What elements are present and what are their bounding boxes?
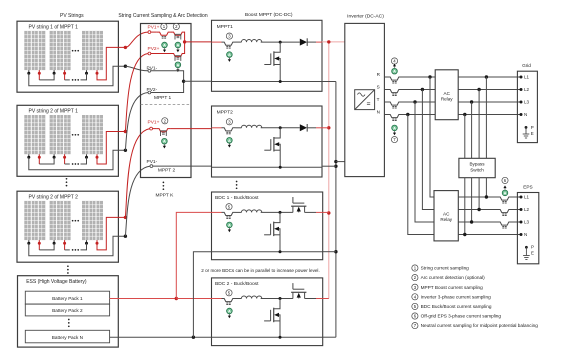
svg-text:PV Strings: PV Strings xyxy=(60,13,84,19)
string negative output wire xyxy=(29,236,126,256)
node bus MPPT2 rail xyxy=(334,165,337,168)
tap T down to EPS relay xyxy=(415,102,434,222)
node bus BDC1 rail xyxy=(334,250,337,253)
wire N inverter to AC relay xyxy=(384,114,387,116)
svg-text:Off-grid EPS 3-phase current s: Off-grid EPS 3-phase current sampling xyxy=(421,314,502,319)
bypass out L2 xyxy=(478,178,480,210)
wire switch to output (BDC 1 - Buck/Boost) xyxy=(305,211,316,213)
panel 3.2 negative terminal xyxy=(53,240,55,243)
circled 3 (MPPT1) xyxy=(226,33,232,39)
sensor core N xyxy=(392,118,394,120)
node R tap xyxy=(428,75,431,78)
wire relay to grid L1 xyxy=(458,76,521,78)
terminal PV1+ (MPPT2) xyxy=(150,127,153,130)
node: string 3 + xyxy=(124,216,127,219)
svg-text:Boost MPPT (DC-DC): Boost MPPT (DC-DC) xyxy=(245,12,293,18)
circled 1 xyxy=(161,23,167,29)
EPS sensor meter xyxy=(502,190,508,196)
node MPPT2 rail xyxy=(279,166,282,169)
PV panel 1.3 xyxy=(82,31,103,70)
wire battery - to BDC1 rail xyxy=(193,252,211,338)
sensor core EPS L3 xyxy=(502,226,504,228)
wire string1- to PV1- terminal xyxy=(125,66,148,71)
MPPT1 negative rail xyxy=(212,81,323,83)
panel 2.3 negative terminal xyxy=(86,154,88,157)
node BDC 2 - Buck/Boost rail xyxy=(279,336,282,339)
panel 2.2 positive terminal xyxy=(64,154,66,157)
node MPPT2 switch drain xyxy=(279,126,282,129)
ellipsis between PV box2 and box3 xyxy=(66,178,68,180)
grid terminal N xyxy=(520,113,523,116)
svg-text:A: A xyxy=(228,138,231,143)
EPS terminal L2 xyxy=(520,208,523,211)
grid box xyxy=(517,71,537,142)
panel 2.2 negative terminal xyxy=(53,154,55,157)
svg-text:Relay: Relay xyxy=(440,217,452,222)
sensor 1 core xyxy=(162,36,164,38)
panel 1.3 positive terminal xyxy=(96,70,98,73)
wire EPS relay to EPS N xyxy=(458,234,521,236)
BDC 2 - Buck/Boost negative rail xyxy=(212,336,323,338)
BDC 1 - Buck/Boost sensor arrow xyxy=(228,228,230,229)
tap N down to EPS relay xyxy=(408,115,434,235)
sensor 4 clamp xyxy=(161,130,167,132)
svg-text:String current sampling: String current sampling xyxy=(421,266,470,271)
series link panel2+ to panel3- (with ellipsis) xyxy=(64,73,66,80)
panel 2.3 positive terminal xyxy=(96,154,98,157)
svg-text:Inverter (DC-AC): Inverter (DC-AC) xyxy=(347,14,384,20)
series link panel1+ to panel2- xyxy=(38,243,40,250)
node EPS L2 tap xyxy=(477,208,480,211)
panel 1.1 negative terminal xyxy=(28,70,30,73)
string positive output wire xyxy=(97,217,125,250)
node MPPT1 rail xyxy=(279,80,282,83)
buck MOSFET BDC 2 - Buck/Boost xyxy=(274,299,280,309)
panel 2.1 positive terminal xyxy=(38,154,40,157)
node battery + xyxy=(175,297,178,300)
node grid N tap xyxy=(463,113,466,116)
node: string 2 + xyxy=(124,130,127,133)
wire BDC1 out to bus xyxy=(323,211,329,213)
sensor 4 arrow up xyxy=(394,66,396,67)
PV panel 2.1 xyxy=(24,115,45,154)
wire relay to grid L3 xyxy=(458,101,521,103)
sensor core R xyxy=(392,81,394,83)
panel 3.3 positive terminal xyxy=(96,240,98,243)
node BDC 1 - Buck/Boost rail xyxy=(279,250,282,253)
svg-text:E: E xyxy=(531,251,534,256)
panel 1.1 positive terminal xyxy=(38,70,40,73)
PV panel 2.3 xyxy=(82,115,103,154)
DC/AC converter symbol xyxy=(355,90,375,110)
wire PV1+ (MPPT2) xyxy=(153,128,157,130)
MPPT2 input sensor meter xyxy=(227,138,233,144)
svg-text:Inverter 3-phase current sampl: Inverter 3-phase current sampling xyxy=(421,294,491,299)
bypass out N xyxy=(464,178,466,235)
BDC 1 - Buck/Boost negative rail xyxy=(212,251,323,253)
PV string box: PV string 2 of MPPT 1 xyxy=(17,105,118,176)
terminal PV2+ xyxy=(148,52,151,55)
svg-text:PV1+: PV1+ xyxy=(148,24,160,30)
wire PV1- (MPPT2) xyxy=(153,165,212,167)
node S tap xyxy=(421,88,424,91)
legend item 5 xyxy=(412,303,418,309)
svg-text:PV1-: PV1- xyxy=(147,159,158,165)
node BDC 2 - Buck/Boost buck switch xyxy=(279,297,282,300)
string negative output wire xyxy=(29,66,126,86)
boost MOSFET BDC 1 - Buck/Boost xyxy=(292,206,294,212)
MPPT1 input line xyxy=(212,41,222,43)
circled 5 (BDC 2 - Buck/Boost) xyxy=(226,290,232,296)
EPS terminal N xyxy=(520,233,523,236)
sensor core EPS L1 xyxy=(502,201,504,203)
wire bus to BDC2 rail xyxy=(323,336,336,338)
node EPS L1 tap xyxy=(485,195,488,198)
MPPT1 sensor arrow xyxy=(228,58,230,59)
svg-text:R: R xyxy=(377,72,381,77)
node T tap xyxy=(413,100,416,103)
circled 5 (BDC 1 - Buck/Boost) xyxy=(226,204,232,210)
svg-text:L3: L3 xyxy=(524,100,530,105)
diode MPPT1 xyxy=(300,39,307,46)
svg-text:MPPT 1: MPPT 1 xyxy=(154,95,172,101)
string positive output wire xyxy=(97,47,125,80)
boost MOSFET BDC 2 - Buck/Boost xyxy=(292,292,294,298)
svg-text:BDC Buck/Boost current samplin: BDC Buck/Boost current sampling xyxy=(421,304,492,309)
inductor MPPT1 xyxy=(241,40,261,43)
node MPPT1 DC+ xyxy=(183,40,186,43)
legend item 4 xyxy=(412,294,418,300)
sensor 3 meter xyxy=(175,62,181,68)
node grid L3 tap xyxy=(470,100,473,103)
BDC 2 - Buck/Boost input sensor meter xyxy=(227,308,233,314)
MPPT2 negative rail xyxy=(212,166,323,168)
MPPT1 input sensor meter xyxy=(227,52,233,58)
sensor core T xyxy=(392,106,394,108)
node EPS L3 tap xyxy=(470,220,473,223)
wire MPPT1 rail to bus xyxy=(322,81,336,83)
svg-text:A: A xyxy=(163,43,166,48)
svg-text:Neutral current sampling for m: Neutral current sampling for midpoint po… xyxy=(421,323,539,328)
ellipsis between PV box3 and ESS xyxy=(67,265,69,267)
svg-text:A: A xyxy=(504,190,507,195)
svg-text:MPPT1: MPPT1 xyxy=(217,24,234,30)
panel 3.2 positive terminal xyxy=(64,240,66,243)
legend item 6 xyxy=(412,313,418,319)
MPPT1 input sensor core xyxy=(226,46,228,48)
inductor BDC 1 - Buck/Boost xyxy=(241,210,261,213)
svg-text:String Current Sampling & Arc: String Current Sampling & Arc Detection xyxy=(118,13,207,19)
ellipsis between MPPT2 and BDC1 xyxy=(236,181,238,183)
bypass switch box xyxy=(459,158,495,177)
svg-text:S: S xyxy=(377,85,380,90)
PV string box: PV string 2 of MPPT 2 xyxy=(17,191,118,262)
svg-text:BDC 2 - Buck/Boost: BDC 2 - Buck/Boost xyxy=(215,281,259,287)
wire PV2+ xyxy=(151,53,172,55)
svg-text:A: A xyxy=(393,69,396,74)
svg-text:Battery Pack 1: Battery Pack 1 xyxy=(52,296,83,301)
panel 2.1 negative terminal xyxy=(28,154,30,157)
sensor 1 arrow xyxy=(164,48,166,49)
EPS box xyxy=(517,193,538,264)
terminal PV1- (MPPT2) xyxy=(150,165,153,168)
BDC 2 - Buck/Boost sensor arrow xyxy=(228,314,230,315)
node: string 1 - xyxy=(124,65,127,68)
EPS terminal L3 xyxy=(520,221,523,224)
svg-text:PV string 2 of MPPT 1: PV string 2 of MPPT 1 xyxy=(29,109,79,115)
series link panel2+ to panel3- (with ellipsis) xyxy=(64,243,66,250)
wire EPS relay to EPS L1 xyxy=(458,196,497,198)
wire PV2- xyxy=(151,81,184,92)
ellipsis between panels xyxy=(72,50,74,52)
svg-text:P: P xyxy=(531,125,534,130)
svg-text:Grid: Grid xyxy=(522,63,531,68)
series link panel2+ to panel3- (with ellipsis) xyxy=(64,157,66,164)
wire battery pack N - rail xyxy=(110,336,212,338)
wire string2+ to PV2+ terminal xyxy=(125,54,148,132)
grid terminal L1 xyxy=(520,76,523,79)
node BDC 1 - Buck/Boost buck switch xyxy=(279,211,282,214)
grid terminal L2 xyxy=(520,88,523,91)
MOSFET MPPT1 xyxy=(274,42,280,52)
svg-text:A: A xyxy=(393,125,396,130)
wire switch to output (BDC 2 - Buck/Boost) xyxy=(305,298,316,300)
inductor BDC 2 - Buck/Boost xyxy=(241,296,261,299)
svg-text:A: A xyxy=(228,222,231,227)
PV panel 1.2 xyxy=(50,31,71,70)
svg-text:N: N xyxy=(524,112,527,117)
wire string3- to MPPT2 PV1- terminal xyxy=(125,166,150,236)
svg-text:MPPT 2: MPPT 2 xyxy=(158,168,176,174)
tap S down to EPS relay xyxy=(422,90,434,210)
wire inductor to diode (MPPT2) xyxy=(261,127,300,129)
sensor 2 clamp xyxy=(175,33,181,35)
svg-text:L3: L3 xyxy=(524,220,530,225)
panel 3.3 negative terminal xyxy=(86,240,88,243)
diode MPPT2 xyxy=(300,124,307,131)
sensor core EPS L2 xyxy=(502,213,504,215)
BDC 1 - Buck/Boost box xyxy=(212,192,323,260)
svg-text:T: T xyxy=(377,97,380,102)
grid terminal L3 xyxy=(520,101,523,104)
svg-text:2 or more BDCs can be in paral: 2 or more BDCs can be in parallel to inc… xyxy=(201,268,319,273)
tap R down to EPS relay xyxy=(430,77,434,197)
wire EPS relay to EPS L2 xyxy=(458,209,497,211)
svg-text:ESS (High Voltage Battery): ESS (High Voltage Battery) xyxy=(26,279,87,285)
buck MOSFET BDC 1 - Buck/Boost xyxy=(274,212,280,222)
grid bypass feed L3 xyxy=(471,102,473,158)
wire relay to grid N xyxy=(458,114,521,116)
svg-text:N: N xyxy=(377,110,380,115)
svg-text:Switch: Switch xyxy=(470,168,484,173)
MPPT2 input sensor core xyxy=(226,131,228,133)
svg-text:PV1+: PV1+ xyxy=(148,120,160,126)
svg-text:MPPT K: MPPT K xyxy=(156,193,175,199)
svg-text:A: A xyxy=(176,43,179,48)
MPPT1 box xyxy=(212,20,323,91)
MPPT2 input line xyxy=(212,127,222,129)
wire diode to output (MPPT2) xyxy=(307,127,316,129)
sensor 1 meter xyxy=(162,42,168,48)
svg-text:L1: L1 xyxy=(524,195,530,200)
MOSFET MPPT2 xyxy=(274,128,280,138)
svg-text:N: N xyxy=(524,232,527,237)
svg-text:MPPT2: MPPT2 xyxy=(217,110,234,116)
wire string2- to PV2- terminal xyxy=(125,93,148,151)
PV string box: PV string 1 of MPPT 1 xyxy=(17,21,118,92)
string positive output wire xyxy=(97,132,125,165)
sensor 2 arrow xyxy=(177,48,179,49)
wire MPPT1 out to bus/inverter xyxy=(322,41,345,43)
wire PV1+ xyxy=(151,31,157,33)
svg-text:P: P xyxy=(531,245,534,250)
sampling box xyxy=(141,24,192,178)
svg-text:A: A xyxy=(163,139,166,144)
svg-text:PV string 2 of MPPT 2: PV string 2 of MPPT 2 xyxy=(29,195,79,201)
svg-text:BDC 1 - Buck/Boost: BDC 1 - Buck/Boost xyxy=(215,195,259,201)
svg-text:AC: AC xyxy=(443,212,450,217)
svg-text:Battery Pack N: Battery Pack N xyxy=(52,335,83,340)
wire battery pack1 + to BDCs xyxy=(110,298,177,300)
AC relay (EPS) box xyxy=(434,191,458,241)
dashed separator xyxy=(141,103,192,105)
node grid L1 tap xyxy=(485,75,488,78)
sensor 7 arrow down xyxy=(394,131,396,132)
BDC 1 - Buck/Boost input sensor core xyxy=(226,216,228,218)
node bus MPPT1 xyxy=(327,40,330,43)
sensor core S xyxy=(392,93,394,95)
sensor 2 meter xyxy=(175,42,181,48)
svg-text:A: A xyxy=(176,62,179,67)
node N tap xyxy=(406,113,409,116)
wire diode to output (MPPT1) xyxy=(307,41,316,43)
sensor 3 arrow xyxy=(177,68,179,69)
grid bypass feed L1 xyxy=(485,77,487,158)
BDC 1 - Buck/Boost input sensor meter xyxy=(227,222,233,228)
wire bus to BDC2 out xyxy=(323,298,329,300)
svg-text:AC: AC xyxy=(444,91,451,96)
node bus inverter DC- xyxy=(334,160,337,163)
panel 3.1 positive terminal xyxy=(38,240,40,243)
wire bus to inverter DC- xyxy=(336,161,345,163)
wire string1+ to PV1+ terminal xyxy=(125,32,148,47)
terminal PV2- xyxy=(148,91,151,94)
MPPT2 sensor arrow xyxy=(228,144,230,145)
node battery - xyxy=(192,336,195,339)
PV panel 3.1 xyxy=(24,201,45,240)
MPPT2 box xyxy=(212,106,323,177)
svg-text:PV string 1 of MPPT 1: PV string 1 of MPPT 1 xyxy=(29,25,79,31)
grid bypass feed N xyxy=(464,115,466,159)
panel 1.2 positive terminal xyxy=(64,70,66,73)
svg-text:Battery Pack 2: Battery Pack 2 xyxy=(52,308,83,313)
wire battery + to BDC2 input xyxy=(176,298,211,300)
ellipsis battery packs xyxy=(68,319,70,321)
wire BDC1 rail to bus xyxy=(323,251,336,253)
wire MPPT1 DC+ out xyxy=(185,41,212,43)
svg-text:Relay: Relay xyxy=(441,97,453,102)
series link panel1+ to panel2- xyxy=(38,73,40,80)
series link panel1+ to panel2- xyxy=(38,157,40,164)
ellipsis below sampling box xyxy=(163,182,165,184)
DC- bus xyxy=(335,82,337,338)
wire battery + to BDC1 input xyxy=(176,212,211,298)
BDC 1 - Buck/Boost input line xyxy=(212,211,222,213)
grid bypass feed L2 xyxy=(478,90,480,159)
legend item 2 xyxy=(412,275,418,281)
ellipsis between panels xyxy=(72,220,74,222)
battery pack N xyxy=(25,330,109,343)
panel 3.1 negative terminal xyxy=(28,240,30,243)
svg-text:EPS: EPS xyxy=(523,184,532,189)
svg-text:Bypass: Bypass xyxy=(469,162,485,167)
BDC 2 - Buck/Boost input sensor core xyxy=(226,302,228,304)
BDC 2 - Buck/Boost box xyxy=(212,278,323,346)
sensor 4 arrow xyxy=(163,144,165,145)
wire inductor to switch (BDC 2 - Buck/Boost) xyxy=(261,298,293,300)
sensor 3 clamp xyxy=(175,55,181,57)
wire MPPT2 out to bus xyxy=(322,127,329,129)
EPS terminal L1 xyxy=(520,196,523,199)
node grid L2 tap xyxy=(477,88,480,91)
legend item 7 xyxy=(412,323,418,329)
DC+ bus xyxy=(328,42,330,299)
sensor 4 meter xyxy=(162,138,168,144)
bypass out L1 xyxy=(485,178,487,197)
wire T inverter to AC relay xyxy=(384,101,387,103)
AC relay (grid) box xyxy=(435,70,458,120)
inverter box xyxy=(345,23,385,176)
terminal PV1- xyxy=(148,69,151,72)
svg-text:PV2+: PV2+ xyxy=(148,46,160,52)
string negative output wire xyxy=(29,150,126,170)
svg-text:A: A xyxy=(228,52,231,57)
wire inductor to diode (MPPT1) xyxy=(261,41,300,43)
wire PV1- xyxy=(151,71,184,82)
wire string3+ to MPPT2 PV1+ terminal xyxy=(125,129,149,218)
circled 3 (MPPT2) xyxy=(226,119,232,125)
PV panel 1.1 xyxy=(24,31,45,70)
svg-text:L1: L1 xyxy=(524,75,530,80)
svg-text:L2: L2 xyxy=(524,87,530,92)
sensor 6 arrow up xyxy=(504,188,506,189)
svg-text:Arc current detection (optiona: Arc current detection (optional) xyxy=(421,275,486,280)
legend item 1 xyxy=(412,265,418,271)
grid ground xyxy=(525,126,528,129)
node EPS N tap xyxy=(463,233,466,236)
PV panel 2.2 xyxy=(50,115,71,154)
node MPPT1 DC- xyxy=(182,80,185,83)
terminal PV1+ xyxy=(148,31,151,34)
bypass out L3 xyxy=(471,178,473,222)
inverter sensor meter N xyxy=(392,125,398,131)
wire R inverter to AC relay xyxy=(384,76,387,78)
wire relay to grid L2 xyxy=(458,89,521,91)
circled 2 xyxy=(173,23,179,29)
legend item 3 xyxy=(412,284,418,290)
PV panel 3.3 xyxy=(82,201,103,240)
node: string 1 + xyxy=(124,46,127,49)
svg-text:L2: L2 xyxy=(524,207,530,212)
node MPPT1 switch drain xyxy=(279,41,282,44)
circled 2 (MPPT2) xyxy=(162,118,168,124)
inverter sensor meter R xyxy=(392,68,398,74)
svg-text:A: A xyxy=(228,309,231,314)
PV panel 3.2 xyxy=(50,201,71,240)
panel 1.3 negative terminal xyxy=(86,70,88,73)
node: string 2 - xyxy=(124,149,127,152)
node: string 3 - xyxy=(124,235,127,238)
